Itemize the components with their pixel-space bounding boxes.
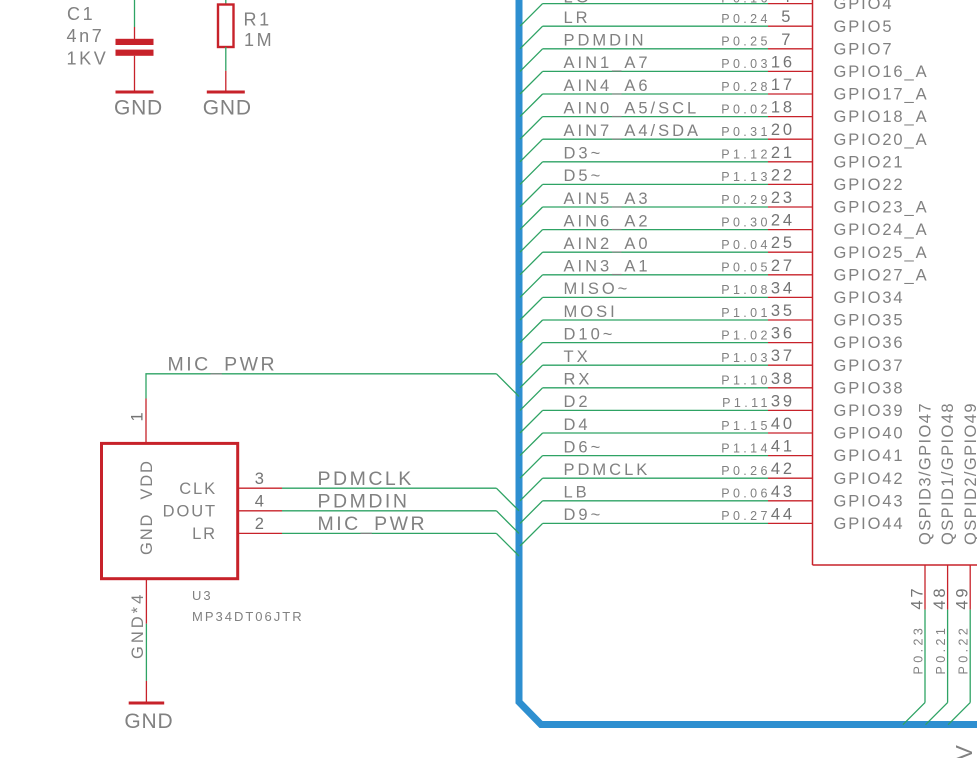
svg-text:P1.01: P1.01 (721, 306, 771, 320)
wire D10~ (543, 342, 768, 344)
U3 pin 1 (VDD) line (145, 399, 147, 444)
svg-text:P1.11: P1.11 (722, 396, 771, 410)
svg-text:GPIO7: GPIO7 (834, 40, 894, 58)
net label MIC_PWR (168, 354, 278, 376)
pin number 38 (771, 370, 795, 388)
svg-text:PDMDIN: PDMDIN (318, 491, 410, 513)
svg-text:37: 37 (771, 347, 795, 365)
pin 38 line (768, 387, 813, 389)
pin name GPIO22 (834, 176, 905, 194)
svg-text:4: 4 (781, 0, 793, 6)
svg-text:AIN1_A7: AIN1_A7 (564, 54, 651, 72)
svg-text:D3~: D3~ (564, 145, 604, 163)
pin 37 line (768, 364, 813, 366)
pin 44 line (768, 522, 813, 524)
svg-text:GND: GND (203, 97, 252, 120)
pin number 7 (781, 31, 793, 49)
svg-text:42: 42 (771, 460, 795, 478)
wire LG (543, 3, 768, 5)
svg-text:36: 36 (771, 325, 795, 343)
svg-text:D9~: D9~ (564, 506, 604, 524)
pin number 3 (255, 470, 267, 488)
net label P0.05 (721, 261, 771, 275)
pin 4 line (768, 3, 813, 5)
wire D9~ (543, 522, 768, 524)
svg-text:AIN3_A1: AIN3_A1 (564, 258, 651, 276)
pin 36 line (768, 342, 813, 344)
wire TX (543, 364, 768, 366)
pin number 43 (771, 483, 795, 501)
svg-text:GPIO5: GPIO5 (834, 18, 894, 36)
net label D10~ (564, 325, 616, 343)
svg-text:5: 5 (781, 8, 793, 26)
net label D6~ (564, 438, 604, 456)
R1 reference/value labels (244, 10, 275, 51)
svg-text:MISO~: MISO~ (564, 280, 631, 298)
svg-text:20: 20 (771, 121, 795, 139)
svg-text:V: V (951, 745, 977, 758)
pin name GPIO25_A (834, 244, 929, 262)
svg-text:GPIO34: GPIO34 (834, 289, 905, 307)
wire to resistor R1 top (225, 0, 227, 5)
pin 20 line (768, 138, 813, 140)
svg-text:GPIO16_A: GPIO16_A (834, 63, 929, 81)
svg-text:P0.06: P0.06 (721, 487, 771, 501)
svg-text:39: 39 (771, 392, 795, 410)
svg-text:GPIO22: GPIO22 (834, 176, 905, 194)
pin 40 line (768, 432, 813, 434)
svg-text:43: 43 (771, 483, 795, 501)
svg-text:4n7: 4n7 (67, 26, 105, 46)
pin number 36 (771, 325, 795, 343)
svg-text:R1: R1 (244, 10, 272, 30)
pin 41 line (768, 455, 813, 457)
svg-text:P0.02: P0.02 (721, 102, 771, 116)
pin number 25 (771, 234, 795, 252)
net label P1.03 (721, 351, 771, 365)
wire P0.22 (969, 610, 971, 703)
svg-text:AIN2_A0: AIN2_A0 (564, 235, 651, 253)
svg-text:AIN6_A2: AIN6_A2 (564, 212, 651, 230)
bus entry for AIN3_A1 (520, 275, 543, 298)
net label P1.01 (721, 306, 771, 320)
bus entry for D3~ (520, 162, 543, 185)
bus entry for D10~ (520, 343, 543, 366)
svg-text:22: 22 (771, 166, 795, 184)
net label MISO~ (564, 280, 631, 298)
svg-text:LB: LB (564, 484, 590, 502)
pin number 24 (771, 212, 795, 230)
svg-text:1KV: 1KV (67, 49, 109, 69)
svg-text:GPIO24_A: GPIO24_A (834, 221, 929, 239)
svg-text:AIN7_A4/SDA: AIN7_A4/SDA (564, 122, 702, 140)
pin 5 line (768, 25, 813, 27)
bus entry for MIC_PWR (496, 533, 519, 556)
pin 48 line (bottom) (947, 565, 949, 610)
svg-text:38: 38 (771, 370, 795, 388)
net label PDMDIN (318, 491, 410, 513)
svg-text:RX: RX (564, 371, 593, 389)
wire AIN3_A1 (543, 274, 768, 276)
bus entry for D4 (520, 433, 543, 456)
net label P1.02 (721, 328, 771, 342)
pin 43 line (768, 500, 813, 502)
svg-text:D4: D4 (564, 416, 591, 434)
wire to ground (145, 624, 147, 681)
pin number 2 (255, 515, 267, 533)
net label P1.14 (721, 441, 771, 455)
pin name GPIO5 (834, 18, 894, 36)
pin number 42 (771, 460, 795, 478)
svg-text:AIN4_A6: AIN4_A6 (564, 77, 651, 95)
net label P0.04 (721, 238, 771, 252)
U3 GND pin line (145, 579, 147, 624)
wire AIN1_A7 (543, 70, 768, 72)
pin number 21 (771, 144, 795, 162)
svg-text:PDMCLK: PDMCLK (564, 461, 651, 479)
net label P1.08 (721, 283, 771, 297)
svg-text:7: 7 (781, 31, 793, 49)
svg-text:P0.31: P0.31 (721, 125, 771, 139)
net label V (partially visible) (951, 745, 977, 758)
net label AIN4_A6 (564, 77, 651, 95)
svg-text:TX: TX (564, 348, 591, 366)
pin 16 line (768, 70, 813, 72)
svg-text:P1.02: P1.02 (721, 328, 771, 342)
net label P1.15 (721, 419, 771, 433)
svg-text:D5~: D5~ (564, 167, 604, 185)
pin number 44 (771, 505, 795, 523)
bus entry for LB (520, 501, 543, 524)
svg-text:21: 21 (771, 144, 795, 162)
U3 pin 3 line (238, 487, 282, 489)
svg-text:GND VDD: GND VDD (138, 459, 156, 555)
pin 18 line (768, 116, 813, 118)
net label P0.28 (721, 80, 771, 94)
svg-text:MP34DT06JTR: MP34DT06JTR (192, 609, 304, 624)
svg-text:MOSI: MOSI (564, 303, 618, 321)
pin name QSPID2/GPIO49 (962, 402, 977, 545)
bus entry for PDMCLK (496, 488, 519, 511)
bus entry for P0.21 (926, 703, 948, 725)
wire AIN6_A2 (543, 229, 768, 231)
pin 47 line (bottom) (924, 565, 926, 610)
svg-text:P0.21: P0.21 (934, 625, 948, 675)
net label P0.30 (721, 215, 771, 229)
wire D5~ (543, 183, 768, 185)
pin number 41 (771, 438, 795, 456)
wire D4 (543, 432, 768, 434)
svg-text:4: 4 (255, 493, 267, 511)
svg-text:41: 41 (771, 438, 795, 456)
net label D2 (564, 393, 591, 411)
net label AIN2_A0 (564, 235, 651, 253)
net label PDMCLK (318, 468, 414, 490)
bus entry for P0.23 (903, 703, 925, 725)
pin name GPIO37 (834, 357, 905, 375)
wire MISO~ (543, 296, 768, 298)
svg-text:QSPID1/GPIO48: QSPID1/GPIO48 (939, 402, 957, 545)
svg-text:48: 48 (931, 586, 949, 610)
svg-text:47: 47 (909, 586, 927, 610)
wire PDMDIN (282, 510, 496, 512)
svg-text:GPIO41: GPIO41 (834, 447, 905, 465)
bus entry for PDMDIN (496, 511, 519, 534)
svg-text:P0.23: P0.23 (912, 625, 926, 675)
pin 39 line (768, 409, 813, 411)
svg-text:DOUT: DOUT (163, 502, 217, 520)
net label P0.26 (721, 464, 771, 478)
pin name GND*4 (vertical) (129, 592, 147, 659)
IC U? left border (812, 0, 814, 565)
svg-text:GPIO42: GPIO42 (834, 470, 905, 488)
pin number 5 (781, 8, 793, 26)
bus entry for AIN6_A2 (520, 230, 543, 253)
C1 reference/value labels (67, 4, 109, 69)
svg-text:25: 25 (771, 234, 795, 252)
svg-text:LR: LR (192, 525, 217, 543)
svg-text:16: 16 (771, 53, 795, 71)
wire D6~ (543, 455, 768, 457)
bus (vertical, bevel corner, horizontal) (519, 0, 977, 725)
pin name QSPID1/GPIO48 (939, 402, 957, 545)
pin number 4 (781, 0, 793, 6)
net label LG (564, 0, 592, 7)
op U3 body (102, 443, 238, 578)
bus entry for LR (520, 26, 543, 49)
svg-text:24: 24 (771, 212, 795, 230)
svg-text:P0.04: P0.04 (721, 238, 771, 252)
bus entry for D5~ (520, 184, 543, 207)
U3 pin names CLK DOUT LR (163, 480, 217, 543)
wire D2 (543, 409, 768, 411)
svg-text:18: 18 (771, 99, 795, 117)
svg-text:D6~: D6~ (564, 438, 604, 456)
svg-text:QSPID3/GPIO47: QSPID3/GPIO47 (917, 402, 935, 545)
bus entry for MOSI (520, 320, 543, 343)
net label P0.29 (721, 193, 771, 207)
svg-text:GPIO43: GPIO43 (834, 492, 905, 510)
svg-text:2: 2 (255, 515, 267, 533)
svg-text:40: 40 (771, 415, 795, 433)
wire PDMDIN (543, 48, 768, 50)
svg-text:QSPID2/GPIO49: QSPID2/GPIO49 (962, 402, 977, 545)
capacitor C1 (116, 27, 154, 91)
pin 17 line (768, 93, 813, 95)
svg-text:GPIO21: GPIO21 (834, 153, 905, 171)
bus entry for TX (520, 365, 543, 388)
wire MIC_PWR (282, 532, 496, 534)
net label AIN3_A1 (564, 258, 651, 276)
pin number 17 (771, 76, 795, 94)
pin number 34 (771, 279, 795, 297)
net label D9~ (564, 506, 604, 524)
net label P1.13 (721, 170, 771, 184)
svg-text:GND: GND (114, 97, 163, 120)
net label P0.25 (721, 35, 771, 49)
pin name GPIO27_A (834, 266, 929, 284)
pin 25 line (768, 251, 813, 253)
pin number 16 (771, 53, 795, 71)
svg-text:P1.12: P1.12 (721, 148, 771, 162)
svg-text:GPIO20_A: GPIO20_A (834, 131, 929, 149)
svg-text:P0.03: P0.03 (721, 57, 771, 71)
svg-text:AIN0_A5/SCL: AIN0_A5/SCL (564, 99, 700, 117)
svg-text:P0.22: P0.22 (957, 625, 971, 675)
net label LB (564, 484, 590, 502)
net label P1.12 (721, 148, 771, 162)
pin number 23 (771, 189, 795, 207)
svg-text:1: 1 (128, 410, 146, 422)
pin number 49 (954, 586, 972, 610)
U3 pin 4 line (238, 510, 282, 512)
svg-text:GPIO40: GPIO40 (834, 425, 905, 443)
pin 23 line (768, 206, 813, 208)
net label P0.06 (721, 487, 771, 501)
bus entry for AIN5_A3 (520, 207, 543, 230)
net label RX (564, 371, 593, 389)
pin 49 line (bottom) (969, 565, 971, 610)
pin number 39 (771, 392, 795, 410)
pin name GPIO17_A (834, 86, 929, 104)
svg-text:P1.08: P1.08 (721, 283, 771, 297)
net label PDMDIN (564, 32, 647, 50)
svg-text:1M: 1M (244, 30, 274, 50)
pin 42 line (768, 477, 813, 479)
net label AIN5_A3 (564, 190, 651, 208)
wire LR (543, 25, 768, 27)
svg-text:C1: C1 (67, 4, 95, 24)
svg-text:GPIO35: GPIO35 (834, 312, 905, 330)
svg-text:23: 23 (771, 189, 795, 207)
bus entry for PDMCLK (520, 478, 543, 501)
svg-text:GND*4: GND*4 (129, 592, 147, 659)
bus entry for MISO~ (520, 297, 543, 320)
wire P0.23 (924, 610, 926, 703)
svg-text:P1.10: P1.10 (721, 374, 771, 388)
pin name GPIO34 (834, 289, 905, 307)
pin 24 line (768, 229, 813, 231)
pin number 48 (931, 586, 949, 610)
svg-text:LR: LR (564, 9, 591, 27)
pin name GPIO18_A (834, 108, 929, 126)
svg-text:P1.14: P1.14 (721, 441, 771, 455)
pin 21 line (768, 161, 813, 163)
svg-text:U3: U3 (192, 588, 213, 603)
pin name GPIO16_A (834, 63, 929, 81)
svg-text:GPIO23_A: GPIO23_A (834, 199, 929, 217)
pin name GPIO44 (834, 515, 905, 533)
bus entry for P0.22 (948, 703, 970, 725)
pin name GPIO24_A (834, 221, 929, 239)
pin number 37 (771, 347, 795, 365)
IC U? bottom border (813, 564, 977, 566)
svg-text:P1.13: P1.13 (721, 170, 771, 184)
net label P1.10 (721, 374, 771, 388)
svg-text:LG: LG (564, 0, 592, 7)
bus entry for MIC_PWR (496, 374, 519, 397)
net label P0.03 (721, 57, 771, 71)
svg-text:17: 17 (771, 76, 795, 94)
pin name GPIO36 (834, 334, 905, 352)
svg-text:GPIO44: GPIO44 (834, 515, 905, 533)
net label AIN7_A4/SDA (564, 122, 702, 140)
pin number 27 (771, 257, 795, 275)
pin number 47 (909, 586, 927, 610)
net label P0.24 (721, 12, 771, 26)
bus entry for AIN1_A7 (520, 71, 543, 94)
wire LB (543, 500, 768, 502)
pin name GPIO39 (834, 402, 905, 420)
pin number 4 (255, 493, 267, 511)
svg-text:P0.26: P0.26 (721, 464, 771, 478)
net label AIN1_A7 (564, 54, 651, 72)
wire MIC_PWR (146, 374, 496, 399)
net label LR (564, 9, 591, 27)
svg-text:P0.29: P0.29 (721, 193, 771, 207)
svg-text:27: 27 (771, 257, 795, 275)
net label TX (564, 348, 591, 366)
pin name GPIO23_A (834, 199, 929, 217)
wire PDMCLK (543, 477, 768, 479)
net label PDMCLK (564, 461, 651, 479)
ground symbol under U3 (124, 681, 173, 733)
pin name GPIO43 (834, 492, 905, 510)
pin number 1 (128, 410, 146, 422)
ground symbol at R1 (203, 71, 252, 120)
net label AIN6_A2 (564, 212, 651, 230)
svg-text:GPIO17_A: GPIO17_A (834, 86, 929, 104)
pin name GPIO41 (834, 447, 905, 465)
svg-text:MIC_PWR: MIC_PWR (168, 354, 278, 376)
pin number 22 (771, 166, 795, 184)
U3 pin 2 line (238, 532, 282, 534)
net label MIC_PWR (318, 513, 428, 535)
net label P1.11 (722, 396, 771, 410)
pin 22 line (768, 183, 813, 185)
pin 34 line (768, 296, 813, 298)
bus entry for AIN0_A5/SCL (520, 117, 543, 140)
bus entry for D9~ (520, 523, 543, 546)
bus entry for D6~ (520, 456, 543, 479)
svg-text:P1.03: P1.03 (721, 351, 771, 365)
svg-text:GND: GND (124, 710, 173, 733)
svg-text:P0.30: P0.30 (721, 215, 771, 229)
bus entry for LG (520, 4, 543, 27)
pin 35 line (768, 319, 813, 321)
pin name GPIO20_A (834, 131, 929, 149)
svg-text:GPIO36: GPIO36 (834, 334, 905, 352)
wire PDMCLK (282, 487, 496, 489)
bus entry for AIN2_A0 (520, 252, 543, 275)
svg-text:GPIO27_A: GPIO27_A (834, 266, 929, 284)
svg-text:P0.27: P0.27 (721, 509, 771, 523)
U3 pin names VDD/GND (vertical) (138, 459, 156, 555)
net label P0.16 (721, 0, 771, 6)
svg-text:GPIO39: GPIO39 (834, 402, 905, 420)
svg-text:GPIO38: GPIO38 (834, 379, 905, 397)
svg-text:D2: D2 (564, 393, 591, 411)
resistor R1 (218, 5, 234, 48)
svg-text:P0.24: P0.24 (721, 12, 771, 26)
pin name GPIO4 (834, 0, 894, 13)
net label AIN0_A5/SCL (564, 99, 700, 117)
bus entry for RX (520, 388, 543, 411)
svg-text:D10~: D10~ (564, 325, 616, 343)
pin name GPIO35 (834, 312, 905, 330)
svg-text:GPIO37: GPIO37 (834, 357, 905, 375)
pin 7 line (768, 48, 813, 50)
